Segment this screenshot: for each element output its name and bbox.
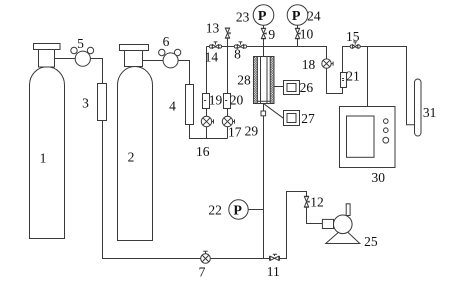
svg-text:12: 12 (310, 194, 324, 209)
svg-text:18: 18 (302, 57, 316, 72)
svg-text:P: P (292, 9, 301, 24)
svg-text:20: 20 (230, 93, 244, 108)
svg-text:11: 11 (267, 264, 280, 279)
svg-text:16: 16 (196, 144, 210, 159)
svg-text:9: 9 (268, 27, 275, 42)
svg-text:29: 29 (245, 124, 259, 139)
svg-text:5: 5 (77, 36, 84, 51)
svg-text:28: 28 (237, 72, 251, 87)
svg-text:30: 30 (372, 170, 386, 185)
svg-text:23: 23 (236, 10, 250, 25)
svg-text:31: 31 (423, 105, 437, 120)
svg-text:26: 26 (300, 80, 314, 95)
svg-text:2: 2 (128, 149, 135, 164)
svg-text:8: 8 (234, 47, 241, 62)
svg-text:13: 13 (206, 21, 220, 36)
svg-text:10: 10 (300, 27, 314, 42)
svg-text:24: 24 (307, 9, 321, 24)
svg-text:17: 17 (228, 125, 242, 140)
svg-text:P: P (258, 9, 267, 24)
svg-text:1: 1 (40, 150, 47, 165)
svg-text:25: 25 (364, 234, 378, 249)
svg-text:19: 19 (209, 93, 223, 108)
svg-text:3: 3 (82, 95, 89, 110)
svg-text:P: P (233, 203, 242, 218)
svg-text:4: 4 (169, 98, 176, 113)
svg-text:21: 21 (346, 68, 360, 83)
svg-text:22: 22 (208, 202, 222, 217)
svg-text:14: 14 (205, 50, 219, 65)
svg-text:15: 15 (346, 29, 360, 44)
svg-text:6: 6 (163, 34, 170, 49)
svg-text:7: 7 (199, 264, 206, 279)
svg-text:27: 27 (301, 111, 315, 126)
